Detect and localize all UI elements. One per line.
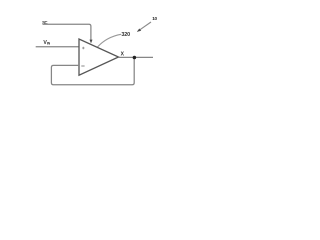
wire SC horizontal then down to op-amp top with arrow: [43, 24, 91, 40]
junction dot at output node: [133, 56, 137, 60]
arrowhead onto op-amp top edge: [90, 40, 93, 44]
wire inverting input from feedback: [51, 58, 134, 85]
wire Vin to non-inverting input: [36, 46, 79, 48]
svg-text:X: X: [121, 52, 125, 58]
wire output: [119, 56, 154, 58]
leader line for 10 with arrowhead: [140, 22, 151, 30]
op-amp U (triangle): [79, 39, 119, 75]
pin + (non-inverting): [82, 47, 85, 50]
svg-text:320: 320: [121, 32, 130, 38]
pin - (inverting): [81, 65, 84, 67]
svg-text:VIN: VIN: [43, 40, 50, 46]
svg-text:10: 10: [152, 16, 157, 21]
leader line for 320 curving to op-amp: [98, 34, 122, 47]
